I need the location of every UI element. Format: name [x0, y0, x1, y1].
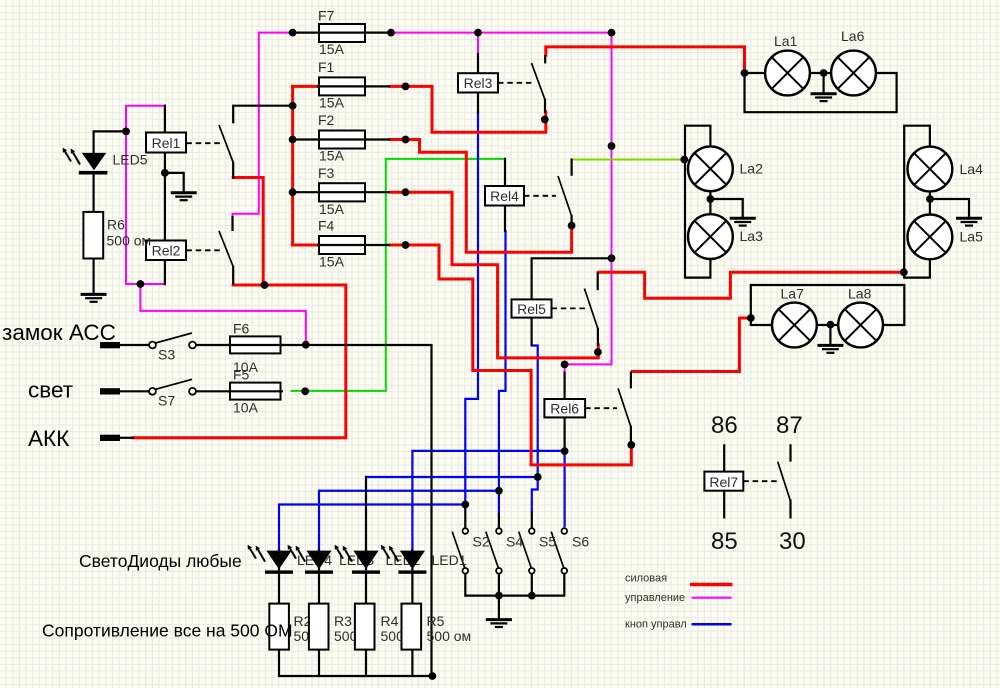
wire black Rel6 coil leads — [563, 373, 565, 452]
ground right of La2/La3 — [730, 218, 756, 225]
lamp La6 — [831, 51, 876, 96]
resistor R3 — [309, 604, 329, 650]
node magenta branch — [137, 280, 145, 288]
wire black LED5 to R6 — [92, 174, 94, 212]
resistor R6 — [83, 212, 103, 259]
node La1-La6 — [820, 69, 828, 77]
wire black Rel1 coil leads — [164, 106, 166, 242]
switch lever S2 — [452, 532, 465, 568]
svg-text:15A: 15A — [319, 201, 345, 217]
wire red F1 input lead — [293, 85, 318, 88]
terminal bar zamok ACC — [100, 342, 120, 348]
svg-text:30: 30 — [779, 528, 806, 555]
svg-text:La2: La2 — [740, 161, 764, 177]
svg-text:Rel7: Rel7 — [709, 474, 738, 490]
svg-text:S5: S5 — [539, 534, 556, 550]
wire black Rel1 switch to fuse bus — [233, 106, 292, 123]
LED5 diode — [63, 148, 108, 175]
svg-text:R5: R5 — [427, 613, 445, 629]
node La4-La5 — [926, 195, 934, 203]
wire blue Rel4 coil to S4/LED3 net — [499, 231, 506, 514]
node S4 net — [495, 487, 503, 495]
svg-text:управление: управление — [625, 592, 685, 604]
switch circles S4 — [496, 528, 502, 534]
wire black Rel5 coil bottom — [530, 318, 532, 345]
switch lever Rel6 — [618, 388, 631, 427]
svg-text:15A: 15A — [319, 148, 345, 164]
wire black S5 stub — [531, 513, 533, 528]
node Rel6 coil top — [561, 361, 569, 369]
dashed link Rel6 — [585, 407, 617, 409]
svg-text:Rel6: Rel6 — [550, 401, 579, 417]
wire magenta F7 output to node — [391, 32, 612, 34]
node F1 output — [402, 83, 410, 91]
wire black La4-La5 loop — [904, 126, 930, 278]
LED2 diode — [335, 545, 380, 574]
svg-text:S2: S2 — [473, 534, 490, 550]
wire red Rel1 switch output — [233, 178, 263, 286]
svg-text:La5: La5 — [960, 229, 984, 245]
svg-text:S4: S4 — [506, 534, 523, 550]
svg-text:LED1: LED1 — [432, 552, 467, 568]
node F7 input — [289, 29, 297, 37]
svg-text:силовая: силовая — [625, 573, 667, 585]
lamp La1 — [765, 51, 810, 96]
wire black svet row — [120, 390, 230, 392]
node S rail left — [495, 592, 503, 600]
svg-text:S6: S6 — [572, 534, 589, 550]
LED4 diode — [248, 545, 293, 574]
svg-text:Rel1: Rel1 — [152, 135, 181, 151]
node S2 net — [461, 501, 469, 509]
wire black La2-La3 loop — [685, 126, 710, 278]
relay box Rel1 — [146, 133, 186, 153]
svg-text:F7: F7 — [318, 8, 335, 24]
LED3 diode — [288, 545, 333, 574]
node La7-La8 — [827, 321, 835, 329]
switch lever Rel5 — [584, 289, 598, 329]
node Rel3 coil tap — [474, 29, 482, 37]
lamp La7 — [772, 303, 817, 348]
ground below La7/La8 — [817, 345, 843, 352]
wire black S4 stub — [498, 514, 500, 528]
switch circle S3 right — [189, 342, 196, 349]
node La2 feed — [680, 156, 688, 164]
svg-text:Rel3: Rel3 — [464, 75, 493, 91]
node LED rail — [429, 672, 437, 680]
wire green F5 to Rel4 coil — [292, 159, 506, 391]
wire black La7-La8 loop — [751, 285, 905, 325]
lamp La4 — [908, 147, 953, 192]
wire black Rel6 switch ticks — [630, 373, 632, 445]
wire green Rel4 switch to La2 — [572, 159, 684, 161]
fuse F1 — [317, 77, 390, 95]
svg-text:F2: F2 — [318, 112, 335, 128]
node F5 green — [301, 387, 309, 395]
dashed link Rel5 — [552, 307, 588, 309]
svg-text:500 ом: 500 ом — [107, 233, 152, 249]
wire black Rel7 coil leads — [723, 445, 725, 517]
svg-text:F3: F3 — [318, 165, 335, 181]
lamp La2 — [688, 146, 733, 191]
wire magenta branch to F6 line — [140, 284, 305, 345]
relay box Rel3 — [458, 73, 498, 92]
wire black Rel4 coil leads — [504, 159, 506, 231]
ground below La1/La6 — [811, 73, 837, 101]
svg-text:La1: La1 — [774, 33, 798, 49]
switch lever S7 — [156, 379, 193, 389]
switch lever S6 — [551, 532, 564, 568]
ground right of La4/La5 — [956, 218, 982, 225]
wire black R6 to ground — [92, 259, 94, 295]
svg-text:86: 86 — [711, 412, 738, 439]
wire blue Rel6 coil to S6/LED1 net — [412, 451, 564, 550]
wire blue LED2 branch horizontal — [366, 476, 538, 478]
svg-text:F1: F1 — [318, 59, 335, 75]
dashed link Rel2 — [186, 249, 223, 251]
switch circle S7 left — [149, 388, 156, 395]
wire red F4 output to Rel6 switch — [390, 245, 631, 465]
svg-text:кноп управл: кноп управл — [625, 619, 687, 631]
wire magenta F7 input — [259, 32, 293, 34]
lamp La3 — [688, 214, 733, 259]
node S5 net — [534, 473, 542, 481]
svg-text:La7: La7 — [781, 286, 805, 302]
relay box Rel2 — [146, 241, 186, 261]
switch lever Rel2 — [219, 231, 234, 268]
node Rel4 switch — [568, 222, 576, 230]
svg-text:15A: 15A — [319, 254, 345, 270]
svg-text:R6: R6 — [107, 217, 125, 233]
dashed link Rel7 — [743, 480, 779, 482]
node bus F2 — [289, 136, 297, 144]
node F3 output — [402, 188, 410, 196]
wire red F4 input lead — [293, 244, 318, 247]
wire red Rel3 switch to La1 group — [546, 47, 745, 73]
fuse F4 — [317, 236, 390, 254]
relay box Rel6 — [544, 399, 585, 417]
wire black Rel1 coil ground branch — [165, 173, 184, 192]
wire red F1 output to Rel3 switch — [390, 86, 546, 132]
wire magenta Rel3 coil tap — [477, 33, 479, 54]
wire black Rel1 switch bottom tick — [232, 163, 234, 177]
node magenta corner — [608, 29, 616, 37]
node La1 feed — [741, 69, 749, 77]
wire red Rel5 switch to La4 group — [598, 272, 903, 298]
node LED5 tap — [122, 127, 130, 135]
switch lever S4 — [486, 532, 499, 568]
wire black La4 ground branch — [930, 199, 969, 218]
ground below Rel1 coil — [171, 193, 197, 200]
wire black LED2 drop — [365, 477, 367, 550]
wire blue Rel5 coil to S5/LED2 net — [532, 345, 538, 513]
svg-text:СветоДиоды любые: СветоДиоды любые — [79, 551, 242, 571]
wire magenta F7 to Rel2 switch — [233, 33, 259, 217]
fuse F6 — [228, 336, 283, 353]
node bus top — [289, 102, 297, 110]
wire black Rel4 switch ticks — [570, 160, 572, 226]
svg-text:Rel2: Rel2 — [152, 243, 181, 259]
wire magenta main vertical control — [565, 33, 612, 373]
svg-text:АКК: АКК — [28, 426, 69, 451]
wire blue LED3 branch — [319, 491, 499, 550]
wire red AKK feed — [133, 285, 346, 438]
node La4 feed — [900, 268, 908, 276]
fuse F7 — [293, 24, 391, 42]
node red join — [261, 281, 269, 289]
dashed link Rel1 — [186, 142, 223, 144]
svg-text:R4: R4 — [381, 613, 399, 629]
svg-text:500 ом: 500 ом — [427, 628, 472, 644]
svg-text:85: 85 — [711, 528, 738, 555]
ground below S switches — [486, 620, 512, 627]
node Rel6 switch — [627, 441, 635, 449]
lamp La5 — [908, 215, 953, 260]
wire blue LED4 branch — [279, 505, 465, 551]
node S rail right — [528, 592, 536, 600]
wire black LED5 top connection — [94, 131, 126, 153]
svg-text:15A: 15A — [319, 41, 345, 57]
wire black Rel3 coil leads — [477, 54, 479, 113]
wire black Rel5 switch ticks — [597, 273, 599, 345]
svg-text:свет: свет — [28, 378, 73, 403]
node La7 feed — [747, 314, 755, 322]
svg-text:Rel5: Rel5 — [517, 301, 546, 317]
dashed link Rel4 — [524, 195, 556, 197]
node bus F3 — [289, 188, 297, 196]
switch lever Rel1 — [219, 125, 234, 163]
wire black Rel5 coil top from magenta node — [532, 258, 612, 299]
switch circle S7 right — [189, 388, 196, 395]
wire black zamok ACC row — [120, 345, 432, 676]
relay box Rel4 — [485, 186, 524, 206]
svg-text:LED5: LED5 — [113, 152, 148, 168]
svg-text:87: 87 — [776, 412, 803, 439]
svg-text:La6: La6 — [841, 28, 865, 44]
svg-text:R3: R3 — [334, 613, 352, 629]
resistor R2 — [269, 604, 289, 650]
wire black Rel2 switch ticks — [231, 217, 234, 284]
switch lever Rel7 — [778, 462, 791, 501]
switch lever S3 — [156, 333, 193, 343]
wire black La7 ground branch — [829, 325, 831, 345]
resistor R5 — [402, 604, 422, 650]
svg-text:F5: F5 — [233, 367, 250, 383]
terminal bar AKK — [100, 435, 120, 441]
node F4 output — [402, 241, 410, 249]
fuse F3 — [293, 183, 390, 201]
svg-text:15A: 15A — [319, 95, 345, 111]
switch lever Rel4 — [558, 176, 572, 216]
node Rel5 switch — [594, 348, 602, 356]
wire black La1-La6 loop — [745, 73, 897, 112]
switch circle S3 left — [149, 342, 156, 349]
wire black S2 stub — [464, 505, 466, 528]
node F7 output — [387, 29, 395, 37]
svg-text:Сопротивление все на 500 ОМ: Сопротивление все на 500 ОМ — [42, 621, 293, 641]
svg-text:S7: S7 — [158, 393, 175, 409]
switch lever Rel3 — [532, 63, 546, 100]
dashed link Rel3 — [498, 82, 533, 84]
wire blue Rel3 coil to S2/LED4 net — [465, 113, 478, 505]
wire red Rel6 switch to La7 group — [632, 318, 750, 372]
wire red fuse bus — [291, 86, 294, 245]
svg-text:La4: La4 — [960, 161, 984, 177]
ground below R6 — [81, 294, 107, 301]
node Rel6 coil bottom — [561, 447, 569, 455]
wire black Rel7 switch ticks — [789, 445, 791, 517]
svg-text:замок АСС: замок АСС — [2, 320, 116, 345]
relay box Rel5 — [512, 299, 552, 317]
node La2-La3 — [707, 195, 715, 203]
LED1 diode — [381, 545, 426, 574]
svg-text:Rel4: Rel4 — [490, 188, 519, 204]
terminal bar svet — [100, 388, 120, 394]
wire black AKK stub — [120, 437, 133, 439]
svg-text:La8: La8 — [848, 286, 872, 302]
node F6 magenta — [302, 341, 310, 349]
wire black S switches bottom rail to ground — [465, 574, 564, 619]
svg-text:La3: La3 — [740, 228, 764, 244]
svg-text:F4: F4 — [318, 218, 335, 234]
node magenta mid — [608, 142, 616, 150]
node Rel5 coil tap — [608, 254, 616, 262]
fuse F5 — [228, 383, 283, 400]
node F2 output — [402, 136, 410, 144]
fuse F2 — [293, 131, 390, 149]
wire black Rel2 coil bottom — [164, 260, 166, 284]
wire black resistors bottom rail — [279, 650, 432, 676]
relay box Rel7 — [704, 472, 743, 491]
wire black LED columns to resistors — [279, 550, 412, 604]
switch circles S5 — [529, 528, 535, 534]
svg-text:10А: 10А — [233, 400, 259, 416]
svg-text:F6: F6 — [233, 321, 250, 337]
switch circles S2 — [463, 528, 469, 534]
wire red F3 output to Rel5 switch — [390, 192, 598, 358]
node Rel1 coil ground — [161, 169, 169, 177]
wire red F2 output to Rel4 switch — [390, 140, 572, 253]
node Rel3 switch — [541, 116, 549, 124]
wire black Rel3 switch ticks — [544, 56, 546, 112]
wire magenta Rel1-Rel2 loop — [126, 106, 165, 284]
resistor R4 — [355, 604, 375, 650]
svg-text:S3: S3 — [158, 347, 175, 363]
switch circles S6 — [562, 528, 568, 534]
lamp La8 — [838, 303, 883, 348]
switch lever S5 — [519, 532, 532, 568]
wire black La2 ground branch — [710, 199, 742, 218]
